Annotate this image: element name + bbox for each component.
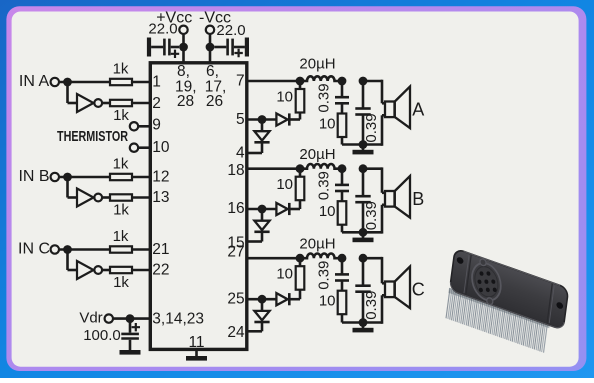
wire node2 down (B) [341,169,344,185]
svg-text:10: 10 [319,116,336,133]
wire cap to resistor (B) [341,192,344,202]
svg-text:24: 24 [227,324,245,341]
ground output (B) [362,232,365,238]
node B3 [359,164,368,173]
svg-text:2: 2 [152,95,161,112]
wire junction down to inverter [66,250,69,271]
node Vdr terminal [105,314,113,322]
svg-text:A: A [412,99,424,119]
wire IC pin to diode node (B) [247,208,277,211]
resistor 1k upper (A) [110,79,132,85]
svg-text:27: 27 [227,244,244,261]
wire bottom rail to speaker (A) [363,143,382,146]
capacitor 0.39 second (A) [355,107,370,110]
svg-text:0.39: 0.39 [316,261,333,290]
op-amp inverter (A) [77,94,94,112]
capacitor 0.39 first (A) [335,96,349,99]
capacitor C3 100.0 [121,323,140,339]
svg-text:26: 26 [206,93,223,110]
node A1 [296,77,305,86]
wire Vdr to IC pins 3,14,23 [113,317,150,320]
speaker A [385,87,410,129]
svg-text:THERMISTOR: THERMISTOR [57,128,128,145]
resistor 10 left (B) [296,177,305,201]
svg-text:10: 10 [319,203,336,220]
svg-text:28: 28 [177,93,194,110]
+Vcc terminal [179,26,187,34]
wire node down to vertical diode (C) [261,299,264,311]
capacitor 0.39 second (C) [355,284,370,287]
svg-text:22.0: 22.0 [148,20,177,37]
node A3 [359,77,368,86]
wire IN A to resistor [59,81,110,84]
wire node3 down (A) [362,81,365,109]
svg-text:0.39: 0.39 [363,291,380,320]
wire resistor to IC [132,248,150,251]
wire IC pin to diode node (C) [247,298,277,301]
svg-text:10: 10 [319,293,336,310]
capacitor 0.39 first (B) [335,184,349,187]
wire node to speaker top (B) [363,167,382,170]
wire cap2 to bottom rail (B) [362,202,365,232]
svg-text:1k: 1k [113,156,129,173]
wire inverter to resistor [102,196,110,199]
wire vertical diode to IC pin (C) [261,322,264,331]
wire IC to LC node (B) [247,167,300,170]
diode horizontal (A) [276,113,287,125]
node B2 [338,164,347,173]
wire cap2 to bottom rail (A) [362,115,365,145]
resistor 1k upper (B) [110,174,132,180]
-Vcc terminal [206,26,214,34]
svg-text:0.39: 0.39 [363,201,380,230]
svg-text:C: C [412,279,425,299]
svg-text:1k: 1k [113,61,129,78]
wire bottom rail to speaker (B) [363,231,382,234]
svg-text:0.39: 0.39 [363,113,380,142]
wire +Vcc to IC pin 8 [182,34,185,63]
node C1 [296,254,305,263]
ground output (A) [362,145,365,151]
pins 8,19,28 label [175,63,197,110]
capacitor 0.39 first (C) [335,273,349,276]
node +Vcc junction [179,43,188,52]
wire cap2 to bottom rail (C) [362,292,365,323]
svg-text:1k: 1k [113,202,129,219]
wire cap to resistor (A) [341,104,344,114]
node thermistor terminal pin 10 [130,144,138,152]
node bottom junction (B) [359,228,368,237]
svg-text:0.39: 0.39 [316,171,333,200]
svg-text:IN C: IN C [18,241,50,258]
wire junction down to inverter [66,177,69,198]
diode horizontal (C) [276,293,287,305]
svg-text:12: 12 [152,169,169,186]
wire resistor to bottom rail (C) [341,314,344,322]
wire resistor to IC [132,176,150,179]
wire node3 down (B) [362,169,365,197]
wire node to speaker top (C) [363,257,382,260]
svg-text:0.39: 0.39 [316,83,333,112]
wire resistor to IC [132,102,150,105]
svg-text:21: 21 [152,241,169,258]
wire IN B to resistor [59,176,110,179]
node C2 [338,254,347,263]
svg-text:18: 18 [227,162,244,179]
svg-text:10: 10 [152,139,170,156]
wire capacitor to ground [129,340,132,350]
speaker B [385,176,410,218]
op-amp inverter (B) [77,189,94,207]
wire resistor to diode row (A) [299,113,302,120]
resistor 1k lower (A) [110,100,132,106]
node thermistor terminal pin 9 [130,122,138,130]
wire resistor to bottom rail (B) [341,225,344,233]
resistor 10 left (A) [296,89,305,113]
wire node1 down (B) [299,169,302,177]
node bottom junction (C) [359,318,368,327]
svg-text:1k: 1k [113,228,129,245]
diode vertical (C) [254,311,269,320]
capacitor 0.39 second (B) [355,195,370,198]
wire node down to vertical diode (B) [261,209,264,221]
resistor 1k lower (C) [110,267,132,273]
wire bottom rail to speaker (C) [363,321,382,324]
node A2 [338,77,347,86]
wire resistor to bottom rail (A) [341,137,344,145]
wire inverter to resistor [102,269,110,272]
IC package photo [445,244,569,358]
resistor 10 left (C) [296,266,305,290]
wire node2 down (C) [341,258,344,274]
wire IC to LC node (C) [247,257,300,260]
svg-text:10: 10 [276,89,293,106]
wire resistor to IC [132,269,150,272]
svg-text:22.0: 22.0 [216,22,245,39]
wire vertical diode to IC pin (B) [261,232,264,242]
svg-text:10: 10 [276,266,293,283]
wire resistor to IC [132,81,150,84]
svg-text:B: B [412,189,424,209]
svg-text:22: 22 [152,262,169,279]
inductor L 20uH (C) [300,254,342,259]
ground below 100.0 cap [120,350,141,355]
svg-text:1k: 1k [113,107,129,124]
wire resistor to IC [132,196,150,199]
svg-text:10: 10 [276,176,293,193]
svg-text:25: 25 [227,291,244,308]
svg-text:Vdr: Vdr [79,310,102,327]
ground pin 11 [186,356,207,361]
svg-text:1k: 1k [113,274,129,291]
wire pin 10 stub [138,146,150,149]
svg-text:3,14,23: 3,14,23 [152,311,204,328]
wire resistor to diode row (C) [299,290,302,300]
node junction IN C [63,245,72,254]
wire node down to vertical diode (A) [261,120,264,132]
wire node1 down (C) [299,258,302,266]
node C3 [359,254,368,263]
node diode junction (B) [258,205,267,214]
resistor 10 mid (A) [338,114,347,138]
wire node2 down (A) [341,81,344,97]
op-amp IC U1 body [150,63,247,350]
wire node3 down (C) [362,258,365,286]
wire pin 9 stub [138,125,150,128]
node bottom junction (A) [359,140,368,149]
svg-text:9: 9 [152,117,161,134]
svg-text:1: 1 [152,74,161,91]
svg-text:100.0: 100.0 [83,327,121,344]
wire IN C to resistor [59,248,110,251]
capacitor C2 22.0 right [214,38,249,58]
diode vertical (B) [254,221,269,230]
speaker C [385,267,410,309]
node -Vcc junction [206,43,215,52]
resistor 10 mid (B) [338,201,347,225]
inductor L 20uH (B) [300,164,342,169]
wire node to speaker top (A) [363,80,382,83]
svg-text:13: 13 [152,189,169,206]
wire IC pin to diode node (A) [247,118,277,121]
svg-text:5: 5 [236,111,245,128]
wire junction down to capacitor [129,319,132,333]
node junction IN A [63,78,72,87]
inductor L 20uH (A) [300,76,342,81]
svg-text:4: 4 [236,144,245,161]
svg-text:20µH: 20µH [299,236,335,253]
node diode junction (A) [258,115,267,124]
node diode junction (C) [258,295,267,304]
wire junction down to inverter [66,82,69,103]
wire -Vcc to IC pin 6 [209,34,212,63]
svg-text:IN B: IN B [18,168,49,185]
svg-text:16: 16 [227,200,244,217]
svg-text:20µH: 20µH [299,146,335,163]
node Vdr junction [126,314,135,323]
pins 6,17,26 label [205,63,227,110]
node B1 [296,164,305,173]
wire inverter to resistor [102,102,110,105]
wire resistor to diode row (B) [299,200,302,209]
capacitor C1 22.0 left [147,38,179,59]
wire node1 down (A) [299,81,302,89]
wire vertical diode to IC pin (A) [261,142,264,153]
resistor 1k upper (C) [110,246,132,252]
svg-text:20µH: 20µH [299,56,335,73]
wire cap to resistor (C) [341,281,344,291]
wire IC to LC node (A) [247,80,300,83]
wire pin 11 to ground [195,349,198,356]
resistor 1k lower (B) [110,194,132,200]
svg-text:7: 7 [236,72,245,89]
diode horizontal (B) [276,203,287,215]
diode vertical (A) [254,131,269,140]
svg-text:IN A: IN A [19,73,50,90]
ground output (C) [362,323,365,329]
resistor 10 mid (C) [338,291,347,315]
svg-text:11: 11 [188,334,204,351]
op-amp inverter (C) [77,261,94,279]
node junction IN B [63,173,72,182]
